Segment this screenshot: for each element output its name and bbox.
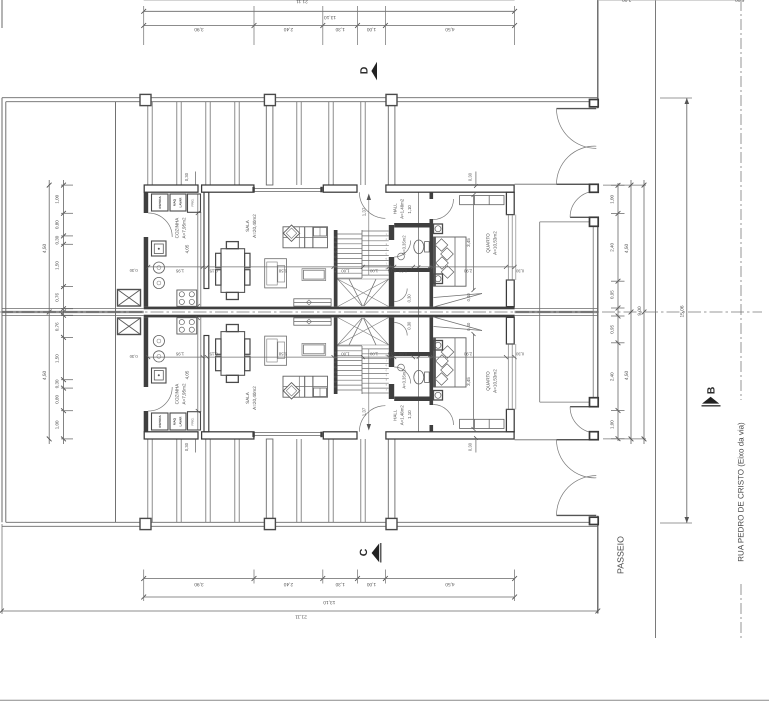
fence post 3 (590, 217, 599, 226)
wardrobe (460, 196, 504, 205)
svg-text:A=1,48m2: A=1,48m2 (400, 405, 405, 426)
svg-text:0,30: 0,30 (54, 235, 59, 244)
svg-text:0,80: 0,80 (398, 351, 407, 356)
staircase (361, 230, 363, 278)
svg-text:0,40: 0,40 (466, 322, 471, 331)
svg-text:HALL: HALL (392, 409, 397, 421)
svg-text:0,30: 0,30 (407, 321, 412, 330)
svg-text:4,50: 4,50 (445, 26, 455, 32)
dividing fence front yard (515, 307, 598, 309)
svg-text:5,58: 5,58 (278, 268, 287, 273)
svg-text:1,00: 1,00 (367, 26, 377, 32)
svg-text:0,15: 0,15 (387, 268, 396, 273)
pergola column strip 1 (266, 102, 273, 185)
wc door arc (394, 241, 411, 258)
understair closet door arc (394, 289, 407, 302)
svg-text:ESPERA: ESPERA (158, 415, 162, 428)
street axis dash-dot line (740, 0, 742, 400)
wc top wall (394, 223, 429, 228)
svg-text:1,00: 1,00 (369, 268, 378, 273)
svg-text:COZINHA: COZINHA (174, 383, 179, 405)
terrace roof edge line (6, 101, 598, 103)
column footing 1 (140, 94, 151, 105)
bottom dimension chain line (144, 578, 515, 580)
svg-text:1,37: 1,37 (361, 207, 366, 216)
svg-text:1,00: 1,00 (609, 420, 614, 429)
opposite street edge (0, 699, 769, 701)
bed (434, 237, 467, 286)
wc bottom wall (389, 268, 433, 272)
pergola joists (147, 102, 149, 185)
lot boundary stub top-left (1, 0, 3, 28)
chair right 1 (245, 253, 250, 267)
right exterior wall upper (506, 192, 514, 214)
svg-text:3,45: 3,45 (466, 238, 471, 247)
svg-text:6,00: 6,00 (735, 0, 745, 2)
front door arc (359, 192, 385, 218)
fence post 1 (590, 100, 599, 107)
right exterior wall lower (506, 280, 514, 307)
svg-text:1,10: 1,10 (407, 205, 412, 214)
svg-text:RUA PEDRO DE CRISTO (Eixo da v: RUA PEDRO DE CRISTO (Eixo da via) (737, 422, 746, 562)
svg-text:3,90: 3,90 (194, 26, 204, 32)
svg-text:QUARTO: QUARTO (486, 371, 491, 391)
svg-text:0,30: 0,30 (129, 354, 138, 359)
svg-text:13,10: 13,10 (323, 599, 335, 605)
svg-text:1,00: 1,00 (367, 581, 377, 587)
svg-text:A=7,95m2: A=7,95m2 (181, 217, 186, 239)
svg-text:A=3,35m2: A=3,35m2 (402, 369, 407, 389)
svg-text:A=20,40m2: A=20,40m2 (252, 214, 257, 238)
tv cabinet (265, 259, 287, 288)
front wall sala segment (202, 185, 254, 192)
chair top (226, 242, 238, 249)
interior dimension line (148, 266, 514, 268)
svg-text:4,50: 4,50 (624, 244, 630, 254)
svg-text:1,95: 1,95 (175, 268, 184, 273)
chair bottom (226, 292, 238, 299)
svg-text:ESPERA: ESPERA (158, 196, 162, 209)
svg-text:1,00: 1,00 (609, 195, 614, 204)
column footing 3 (386, 94, 397, 105)
svg-text:1,00: 1,00 (341, 268, 350, 273)
svg-text:LAVAR: LAVAR (179, 197, 183, 208)
nightstand 2 (434, 274, 443, 284)
stair right wall lower (389, 257, 394, 307)
laundry tank box (118, 290, 141, 307)
kitchen-sala divider wall (204, 192, 209, 288)
svg-text:1,95: 1,95 (175, 351, 184, 356)
svg-text:2,90: 2,90 (463, 351, 472, 356)
stair direction arrow (368, 196, 370, 275)
svg-text:0,30: 0,30 (515, 268, 524, 273)
vehicle gate leaf 1 (557, 108, 597, 110)
pedestrian gate (570, 216, 596, 218)
patio paving (540, 221, 594, 223)
front fence wall (597, 0, 599, 108)
kitchen cabinet FRIG (188, 194, 201, 212)
svg-text:0,30: 0,30 (184, 172, 189, 181)
top dimension chain line (144, 25, 515, 27)
top extension lines (143, 6, 145, 45)
svg-text:MAQ: MAQ (173, 417, 177, 425)
svg-text:21,11: 21,11 (296, 0, 308, 4)
svg-text:0,30: 0,30 (184, 442, 189, 451)
svg-text:A=1,48m2: A=1,48m2 (400, 198, 405, 219)
svg-text:0,15: 0,15 (387, 351, 396, 356)
backyard terrace edge (115, 102, 117, 312)
svg-text:0,40: 0,40 (466, 293, 471, 302)
side yard wall (515, 183, 590, 185)
svg-text:13,10: 13,10 (324, 14, 336, 20)
svg-text:3,90: 3,90 (194, 581, 204, 587)
stair right wall upper (389, 225, 394, 240)
svg-text:MAQ: MAQ (173, 198, 177, 206)
inner lot edge line (5, 102, 7, 312)
stair left wall (334, 230, 338, 307)
svg-text:4,50: 4,50 (42, 371, 48, 381)
svg-text:1,10: 1,10 (407, 410, 412, 419)
vehicle gate leaf 2 (557, 183, 597, 185)
nightstand 1 (434, 224, 443, 234)
svg-text:HALL: HALL (392, 203, 397, 215)
svg-text:2,90: 2,90 (463, 268, 472, 273)
svg-text:0,30: 0,30 (407, 294, 412, 303)
svg-text:4,50: 4,50 (42, 244, 48, 254)
hall-quarto wall lower (430, 219, 434, 307)
svg-text:A=10,53m2: A=10,53m2 (493, 231, 498, 255)
sofa (283, 227, 328, 248)
svg-text:15,06: 15,06 (680, 305, 686, 317)
svg-text:A=20,40m2: A=20,40m2 (252, 386, 257, 410)
bottom dimension line 13,10 (144, 596, 515, 598)
svg-text:1,00: 1,00 (54, 194, 59, 203)
left exterior wall upper (144, 192, 149, 213)
svg-text:B: B (706, 386, 718, 394)
svg-text:0,30: 0,30 (468, 172, 473, 181)
column footing 2 (264, 94, 275, 105)
extension line left for 21,11 (1, 524, 3, 614)
chair right 2 (245, 270, 250, 285)
kitchen sink (152, 241, 167, 256)
svg-text:2,40: 2,40 (609, 242, 614, 251)
dimension line 15,06 (686, 98, 688, 523)
washing machine (153, 262, 164, 273)
kitchen counter edge (197, 194, 199, 307)
svg-text:0,15: 0,15 (209, 351, 218, 356)
svg-text:1,30: 1,30 (335, 581, 345, 587)
svg-text:FRIG.: FRIG. (191, 198, 195, 206)
svg-text:SALA: SALA (245, 219, 250, 232)
svg-text:4,50: 4,50 (624, 371, 630, 381)
quarto window (507, 215, 509, 280)
stove (177, 290, 197, 306)
svg-text:0,30: 0,30 (54, 379, 59, 388)
svg-text:5,58: 5,58 (278, 351, 287, 356)
kitchen backyard door arc (148, 213, 172, 237)
understair area (338, 278, 389, 280)
svg-text:1,50: 1,50 (54, 261, 59, 270)
kitchen length dim (196, 211, 200, 215)
svg-text:0,30: 0,30 (468, 442, 473, 451)
svg-text:QUARTO: QUARTO (486, 233, 491, 253)
street curb line (655, 0, 657, 638)
chair left 2 (216, 270, 221, 285)
svg-text:0,95: 0,95 (609, 325, 614, 334)
lot front boundary top (2, 97, 598, 99)
svg-text:D: D (359, 66, 371, 74)
svg-text:0,15: 0,15 (209, 268, 218, 273)
dining table (221, 249, 245, 293)
svg-text:0,30: 0,30 (515, 351, 524, 356)
vertical reference line (418, 186, 420, 439)
fence post 2 (590, 184, 599, 192)
svg-text:1,37: 1,37 (361, 407, 366, 416)
svg-text:2,40: 2,40 (609, 372, 614, 381)
top dimension line 13,10 (144, 10, 515, 12)
bottom extension lines (253, 570, 255, 584)
svg-text:9,00: 9,00 (637, 306, 643, 316)
rug (302, 269, 326, 281)
svg-text:2,00: 2,00 (622, 0, 632, 2)
svg-text:2,40: 2,40 (283, 581, 293, 587)
svg-text:1,00: 1,00 (341, 351, 350, 356)
sideboard (294, 299, 331, 306)
svg-text:SALA: SALA (245, 391, 250, 404)
svg-text:A=10,53m2: A=10,53m2 (493, 369, 498, 393)
front wall right segment (386, 185, 514, 192)
washing machine 2 (153, 277, 164, 288)
svg-text:3,45: 3,45 (466, 377, 471, 386)
sala window (254, 188, 320, 190)
kitchen cabinet ESPERA (152, 194, 169, 211)
kitchen cabinet MAQ (170, 194, 186, 211)
dividing fence backyard (2, 307, 144, 309)
svg-text:1,00: 1,00 (369, 351, 378, 356)
bottom dimension line 21,11 (2, 610, 598, 612)
svg-text:21,11: 21,11 (295, 614, 307, 620)
quarto door arc (433, 199, 453, 220)
svg-text:0,30: 0,30 (129, 268, 138, 273)
svg-text:FRIG.: FRIG. (191, 417, 195, 425)
front wall middle segment (323, 185, 357, 192)
chair left 1 (216, 253, 221, 267)
right chain ticks (616, 183, 621, 188)
right dimension chain lines (617, 183, 619, 441)
left chain ticks (61, 183, 66, 188)
front wall kitchen segment (144, 185, 198, 192)
svg-text:2,40: 2,40 (283, 26, 293, 32)
left dimension chain lines (48, 180, 50, 444)
toilet (414, 240, 424, 254)
svg-text:0,95: 0,95 (609, 290, 614, 299)
svg-text:A=7,95m2: A=7,95m2 (181, 383, 186, 405)
svg-text:0,80: 0,80 (54, 220, 59, 229)
svg-text:1,50: 1,50 (54, 354, 59, 363)
svg-text:0,76: 0,76 (54, 292, 59, 301)
hall-quarto wall upper (430, 192, 434, 199)
svg-text:0,80: 0,80 (398, 268, 407, 273)
svg-text:COZINHA: COZINHA (174, 217, 179, 239)
svg-text:C: C (358, 548, 370, 556)
svg-text:0,80: 0,80 (54, 395, 59, 404)
left exterior wall lower (144, 237, 149, 307)
pergola column strip 2 (388, 102, 395, 185)
party wall (144, 307, 515, 310)
svg-text:1,00: 1,00 (54, 420, 59, 429)
floor slope wedge (434, 294, 483, 308)
svg-text:1,30: 1,30 (335, 26, 345, 32)
svg-text:PASSEIO: PASSEIO (616, 536, 626, 574)
svg-text:4,05: 4,05 (185, 370, 190, 379)
svg-text:0,76: 0,76 (54, 322, 59, 331)
svg-text:A=3,35m2: A=3,35m2 (402, 235, 407, 255)
svg-text:4,05: 4,05 (185, 244, 190, 253)
svg-text:4,50: 4,50 (445, 581, 455, 587)
quarto length dim (473, 195, 475, 290)
lot left boundary (1, 98, 3, 523)
lot center axis dash-dot (0, 311, 762, 313)
top dimension line 21,11 (cropped) (144, 0, 515, 2)
svg-text:LAVAR: LAVAR (179, 416, 183, 427)
